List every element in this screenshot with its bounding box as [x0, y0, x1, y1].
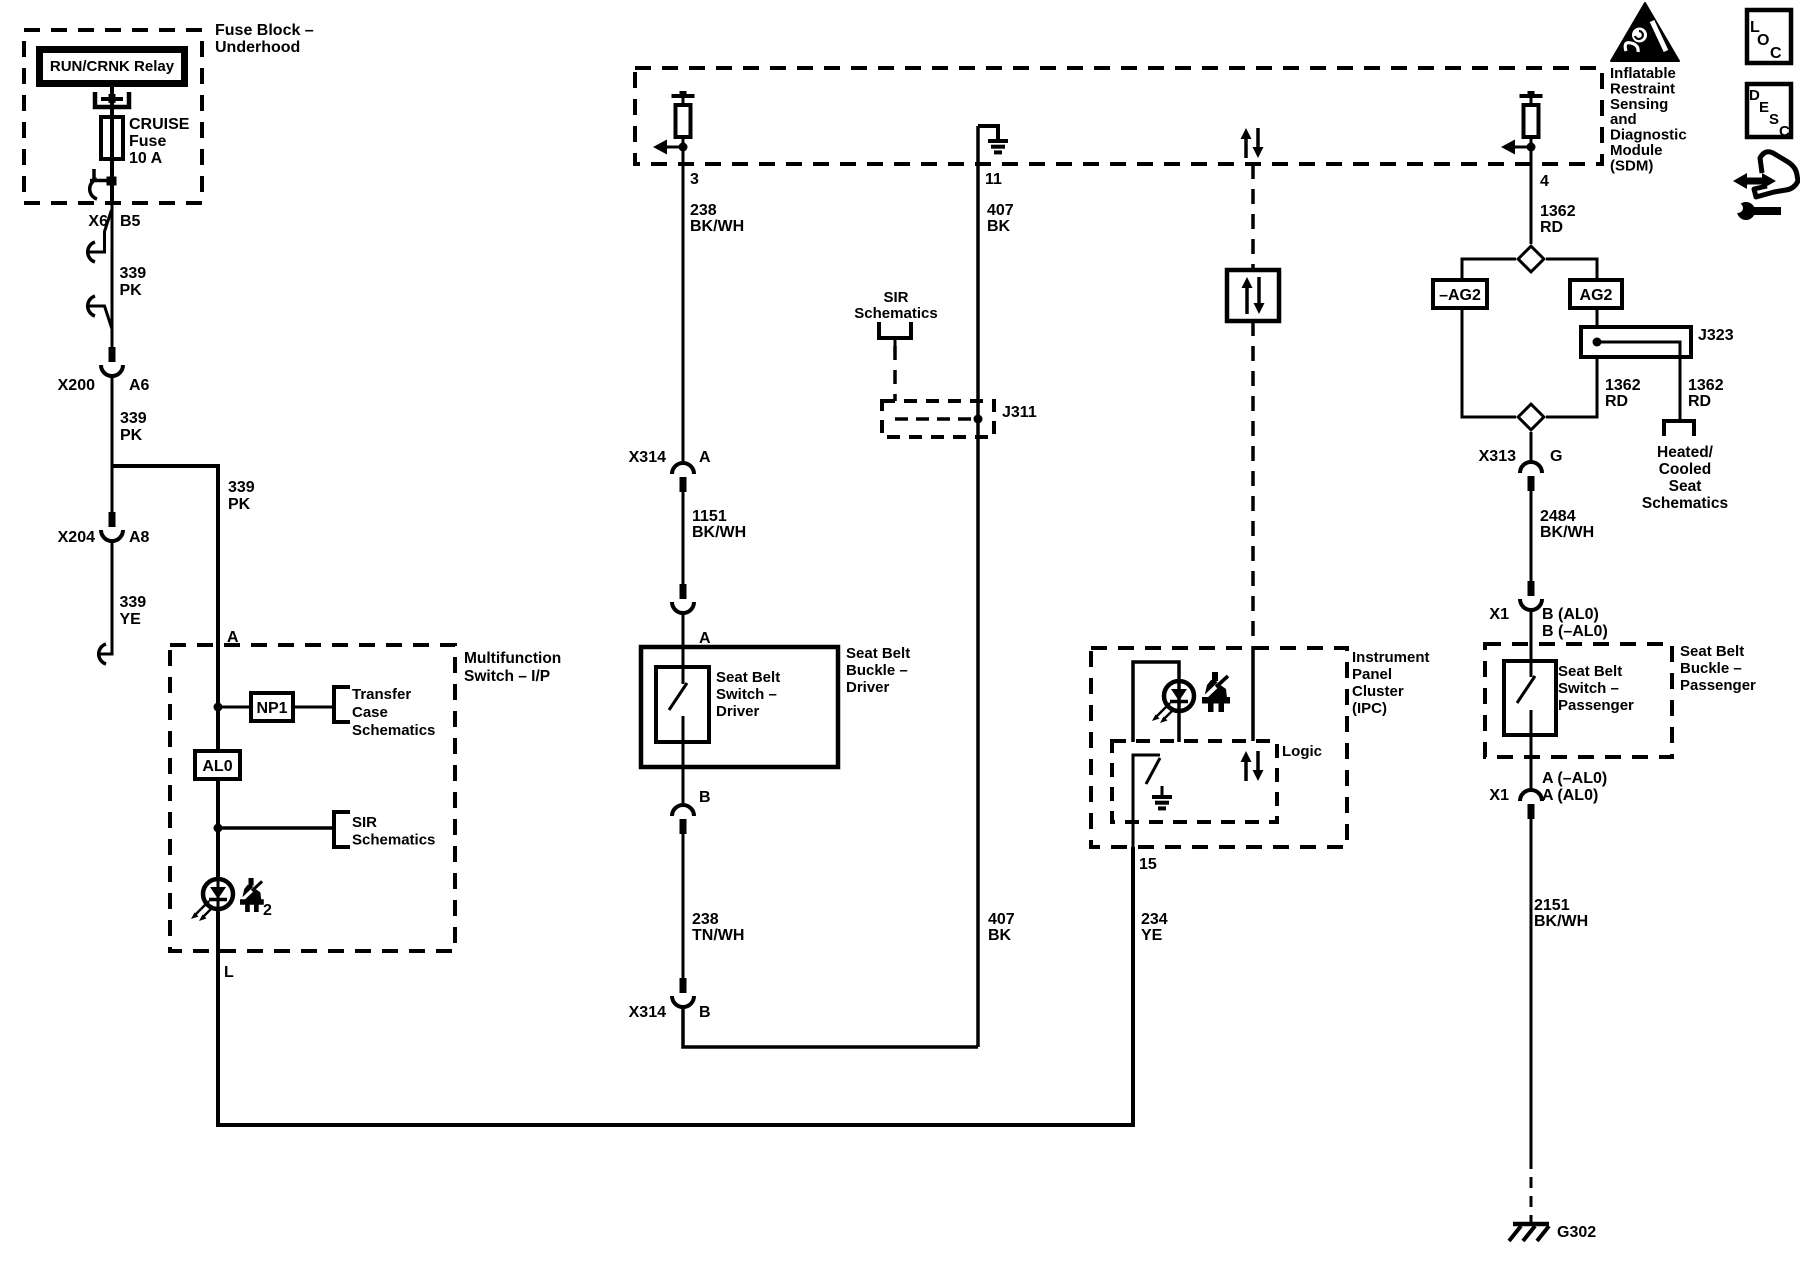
svg-text:339: 339 [120, 265, 147, 282]
svg-text:Schematics: Schematics [854, 305, 937, 322]
svg-text:15: 15 [1139, 856, 1157, 873]
svg-text:–AG2: –AG2 [1439, 287, 1481, 304]
svg-text:2: 2 [263, 902, 272, 919]
svg-text:E: E [1759, 99, 1769, 116]
svg-text:Seat Belt: Seat Belt [716, 669, 780, 686]
svg-text:A8: A8 [129, 529, 150, 546]
svg-text:X313: X313 [1479, 448, 1516, 465]
svg-text:Buckle –: Buckle – [1680, 660, 1742, 677]
svg-text:BK/WH: BK/WH [690, 218, 744, 235]
svg-text:A: A [699, 630, 711, 647]
svg-text:RD: RD [1605, 393, 1628, 410]
svg-text:4: 4 [1540, 173, 1549, 190]
svg-text:Switch –: Switch – [1558, 680, 1619, 697]
svg-text:B (AL0): B (AL0) [1542, 606, 1599, 623]
svg-text:Fuse: Fuse [129, 133, 166, 150]
svg-text:1362: 1362 [1540, 203, 1576, 220]
svg-text:3: 3 [690, 171, 699, 188]
svg-text:YE: YE [120, 611, 142, 628]
svg-text:O: O [1757, 32, 1769, 49]
svg-text:1151: 1151 [692, 508, 727, 525]
svg-text:407: 407 [988, 911, 1015, 928]
svg-text:RUN/CRNK Relay: RUN/CRNK Relay [50, 58, 175, 75]
svg-text:A: A [699, 449, 711, 466]
svg-text:BK: BK [987, 218, 1011, 235]
svg-text:L: L [224, 964, 234, 981]
svg-text:PK: PK [120, 282, 143, 299]
svg-text:RD: RD [1540, 219, 1563, 236]
svg-text:Seat Belt: Seat Belt [1558, 663, 1622, 680]
svg-text:X204: X204 [58, 529, 95, 546]
svg-text:SIR: SIR [883, 289, 908, 306]
svg-text:Buckle –: Buckle – [846, 662, 908, 679]
svg-text:Instrument: Instrument [1352, 649, 1430, 666]
svg-text:X1: X1 [1489, 787, 1509, 804]
svg-text:X314: X314 [629, 449, 666, 466]
svg-text:Schematics: Schematics [352, 722, 435, 739]
svg-text:B (–AL0): B (–AL0) [1542, 623, 1608, 640]
svg-text:B5: B5 [120, 213, 141, 230]
svg-text:Passenger: Passenger [1558, 697, 1634, 714]
svg-text:339: 339 [120, 594, 147, 611]
svg-text:RD: RD [1688, 393, 1711, 410]
svg-text:BK/WH: BK/WH [1540, 524, 1594, 541]
svg-text:238: 238 [690, 202, 717, 219]
svg-text:Underhood: Underhood [215, 39, 300, 56]
svg-text:X200: X200 [58, 377, 95, 394]
svg-text:2151: 2151 [1534, 897, 1570, 914]
svg-text:Panel: Panel [1352, 666, 1392, 683]
svg-text:2484: 2484 [1540, 508, 1576, 525]
svg-text:11: 11 [985, 171, 1002, 188]
svg-text:X1: X1 [1489, 606, 1509, 623]
svg-text:X314: X314 [629, 1004, 666, 1021]
svg-text:Seat: Seat [1669, 478, 1702, 495]
svg-text:Multifunction: Multifunction [464, 650, 561, 667]
svg-text:CRUISE: CRUISE [129, 116, 190, 133]
svg-text:238: 238 [692, 911, 719, 928]
svg-text:Fuse Block –: Fuse Block – [215, 22, 314, 39]
svg-text:C: C [1770, 45, 1782, 62]
svg-text:G302: G302 [1557, 1224, 1596, 1241]
svg-text:234: 234 [1141, 911, 1168, 928]
svg-text:A (AL0): A (AL0) [1542, 787, 1598, 804]
svg-text:Heated/: Heated/ [1657, 444, 1714, 461]
svg-text:PK: PK [228, 496, 251, 513]
svg-text:339: 339 [228, 479, 255, 496]
svg-text:PK: PK [120, 427, 143, 444]
svg-text:Logic: Logic [1282, 743, 1322, 760]
svg-text:Driver: Driver [846, 679, 890, 696]
svg-text:B: B [699, 1004, 711, 1021]
svg-text:TN/WH: TN/WH [692, 927, 744, 944]
svg-text:Seat Belt: Seat Belt [846, 645, 910, 662]
svg-text:Cluster: Cluster [1352, 683, 1404, 700]
svg-text:(IPC): (IPC) [1352, 700, 1387, 717]
svg-text:Switch – I/P: Switch – I/P [464, 668, 550, 685]
svg-text:BK/WH: BK/WH [1534, 913, 1588, 930]
svg-text:J311: J311 [1002, 404, 1037, 421]
svg-text:339: 339 [120, 410, 147, 427]
svg-text:Switch –: Switch – [716, 686, 777, 703]
svg-text:10 A: 10 A [129, 150, 163, 167]
svg-text:Seat Belt: Seat Belt [1680, 643, 1744, 660]
svg-text:S: S [1769, 111, 1779, 128]
svg-text:B: B [699, 789, 711, 806]
svg-text:J323: J323 [1698, 327, 1734, 344]
svg-text:A: A [227, 629, 239, 646]
svg-text:G: G [1550, 448, 1562, 465]
svg-text:SIR: SIR [352, 814, 377, 831]
svg-text:Driver: Driver [716, 703, 760, 720]
svg-text:BK/WH: BK/WH [692, 524, 746, 541]
svg-text:407: 407 [987, 202, 1014, 219]
svg-text:1362: 1362 [1605, 377, 1641, 394]
svg-text:Transfer: Transfer [352, 686, 411, 703]
svg-text:AG2: AG2 [1580, 287, 1613, 304]
svg-text:Cooled: Cooled [1659, 461, 1712, 478]
svg-text:YE: YE [1141, 927, 1163, 944]
svg-text:Schematics: Schematics [352, 832, 435, 849]
svg-text:Case: Case [352, 704, 388, 721]
svg-text:A6: A6 [129, 377, 150, 394]
svg-text:BK: BK [988, 927, 1012, 944]
svg-text:A (–AL0): A (–AL0) [1542, 770, 1607, 787]
svg-text:1362: 1362 [1688, 377, 1724, 394]
svg-text:(SDM): (SDM) [1610, 157, 1653, 174]
svg-text:Passenger: Passenger [1680, 677, 1756, 694]
svg-text:C: C [1779, 123, 1790, 140]
svg-text:NP1: NP1 [256, 700, 287, 717]
svg-text:Schematics: Schematics [1642, 495, 1728, 512]
svg-text:AL0: AL0 [202, 758, 232, 775]
